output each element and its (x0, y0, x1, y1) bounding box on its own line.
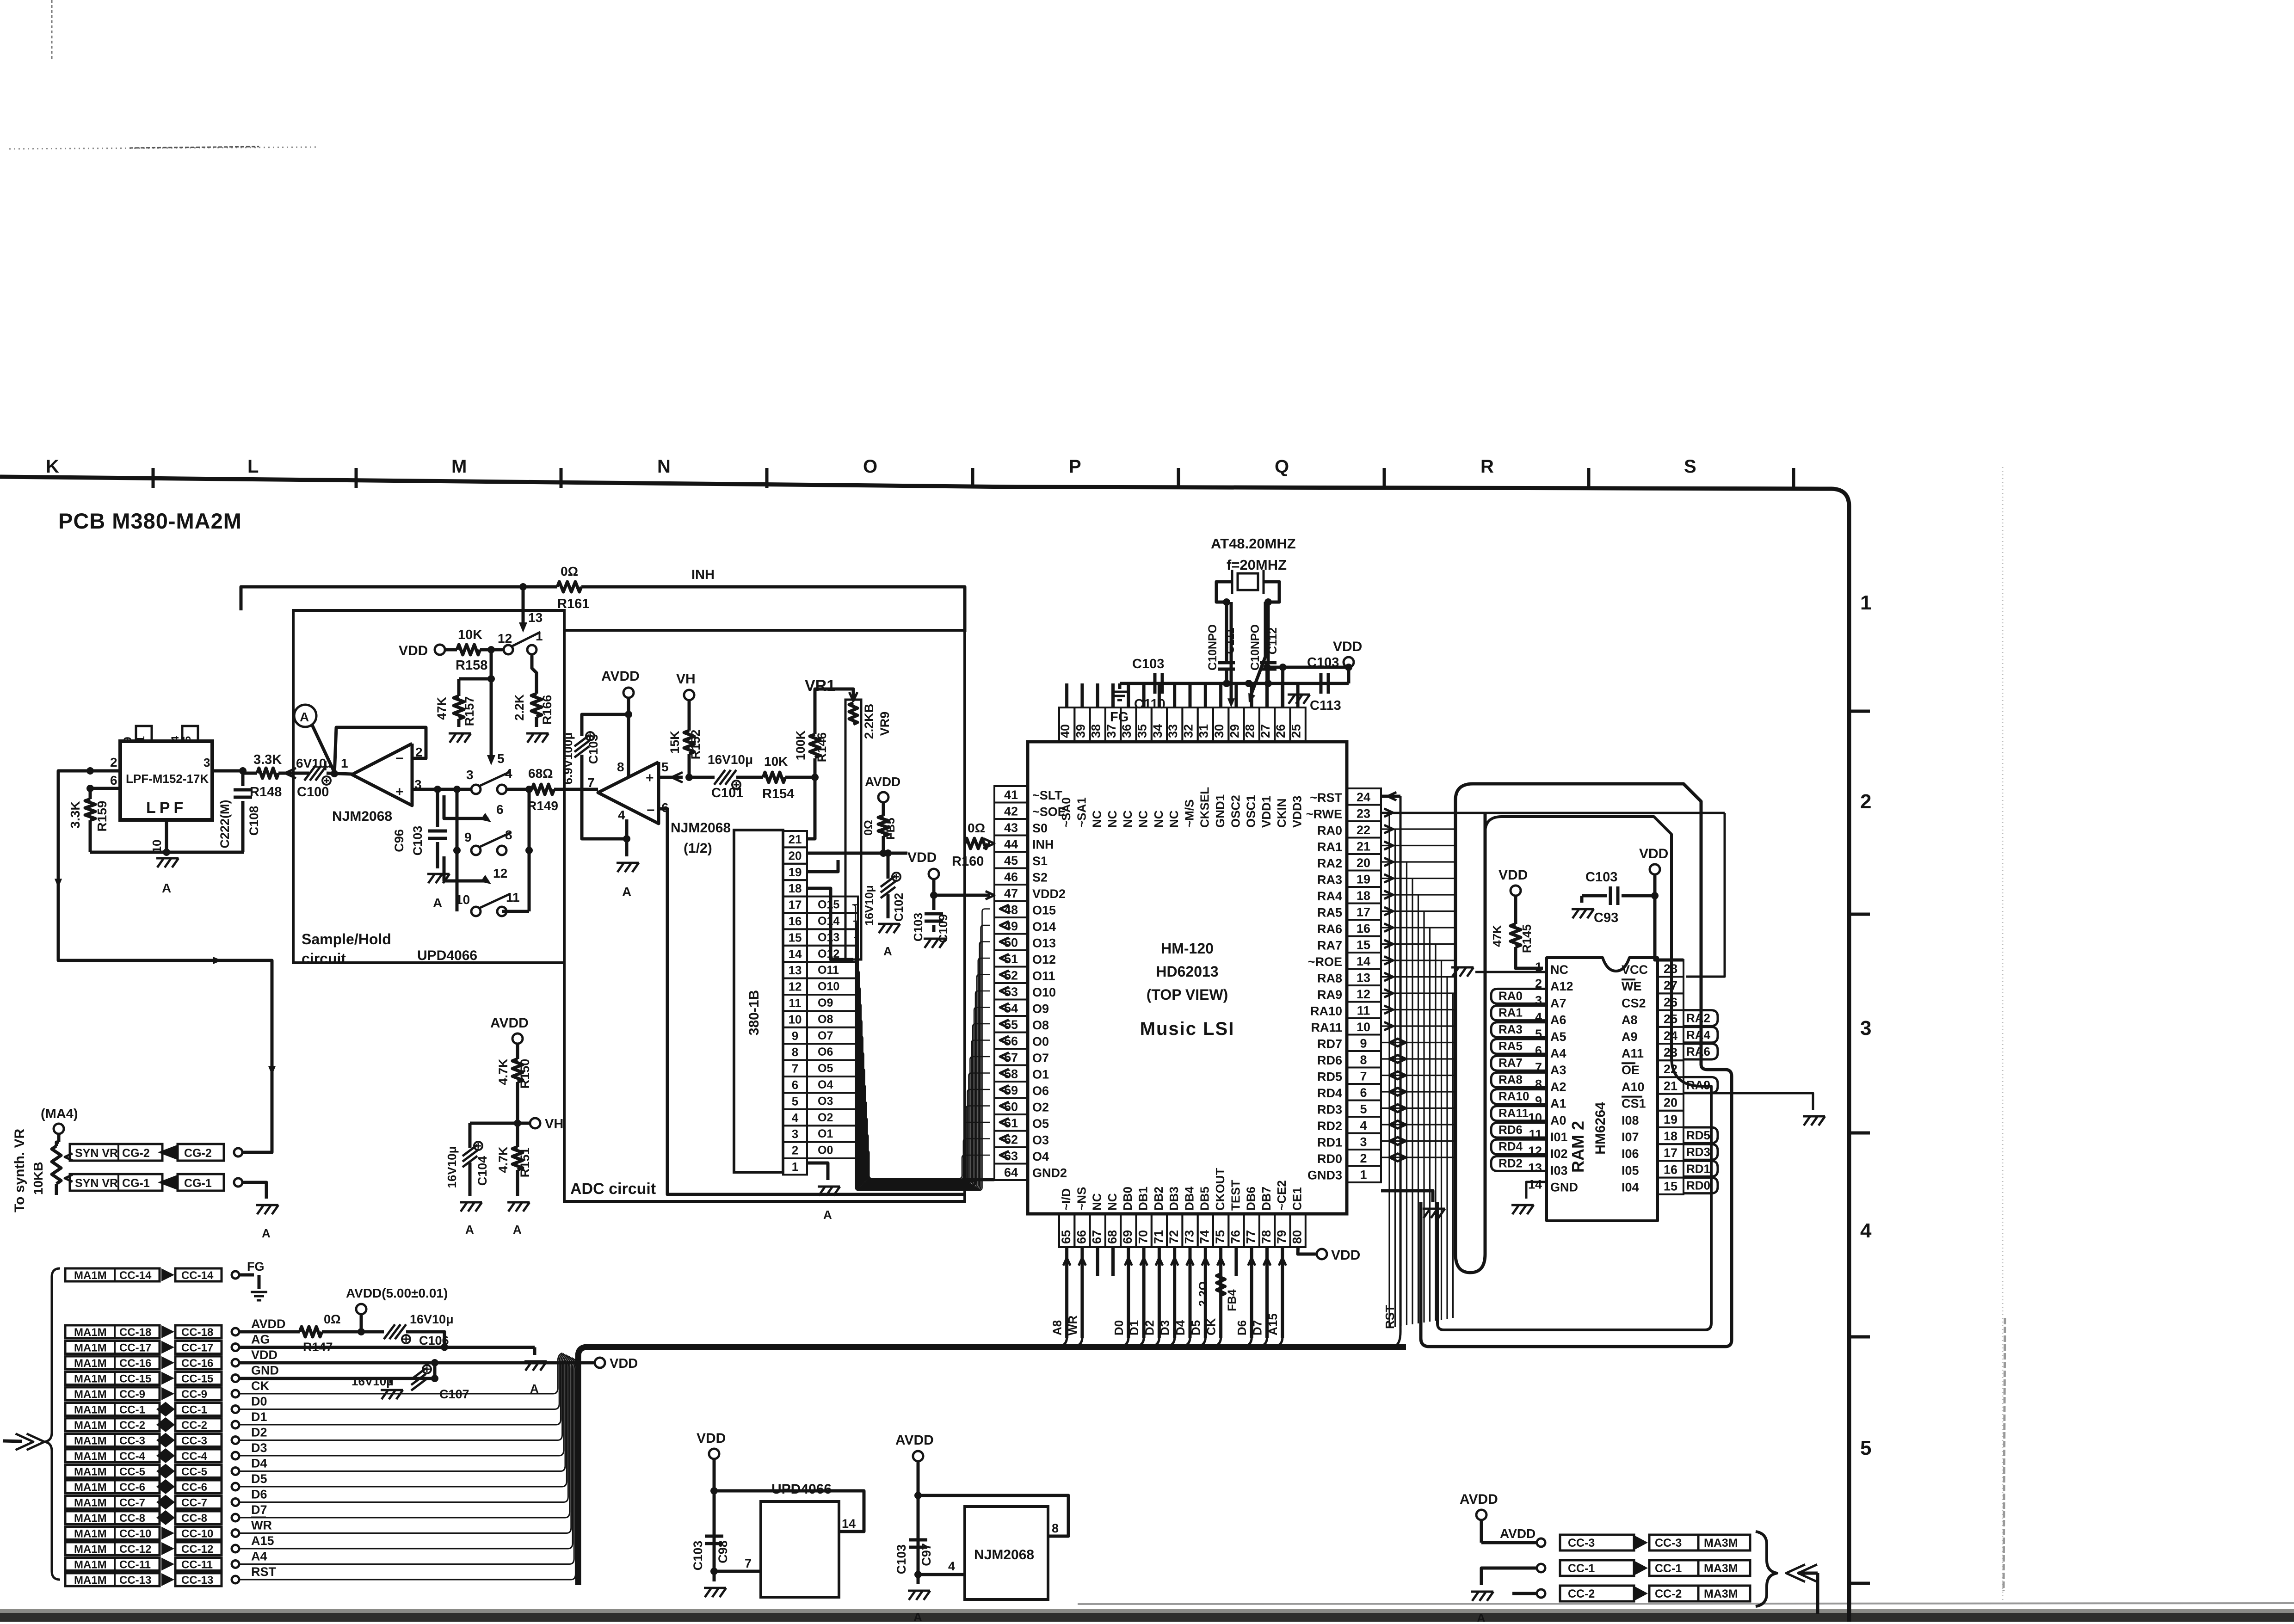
svg-text:68: 68 (1105, 1230, 1119, 1244)
svg-text:A12: A12 (1550, 979, 1573, 993)
RAM pin14 GND wire (1511, 1182, 1547, 1214)
svg-text:CS2: CS2 (1622, 996, 1646, 1010)
brace MA1M group (44, 1268, 60, 1580)
svg-text:R158: R158 (456, 658, 487, 673)
wire vertical bus RA-RD (1389, 813, 1453, 1328)
RAM CS1 wire to ground (1683, 1093, 1825, 1126)
RAM outer loop bottom left (1421, 1202, 1568, 1347)
svg-text:O15: O15 (1032, 904, 1056, 917)
LPF pin 2 wire (86, 755, 120, 775)
svg-text:D1: D1 (251, 1410, 267, 1424)
svg-text:R154: R154 (762, 787, 794, 801)
svg-text:24: 24 (1357, 790, 1370, 804)
svg-text:RD3: RD3 (1317, 1103, 1342, 1117)
svg-text:D2: D2 (1142, 1320, 1156, 1335)
svg-text:+: + (646, 770, 654, 786)
svg-text:1: 1 (536, 629, 543, 643)
label NJM2068 (1/2) (671, 820, 731, 856)
svg-text:40: 40 (1058, 724, 1072, 738)
svg-text:70: 70 (1136, 1230, 1150, 1244)
terminal VDD near pin47 (907, 850, 939, 879)
svg-text:AG: AG (251, 1333, 270, 1347)
ground A below LPF (156, 858, 179, 895)
svg-text:D3: D3 (1158, 1320, 1172, 1335)
svg-text:C110: C110 (1134, 697, 1165, 712)
svg-text:DB0: DB0 (1121, 1187, 1135, 1211)
svg-text:R150: R150 (518, 1059, 532, 1089)
svg-text:AVDD: AVDD (865, 775, 900, 789)
svg-text:NC: NC (1121, 810, 1135, 828)
svg-text:9: 9 (1360, 1037, 1367, 1051)
svg-text:CC-11: CC-11 (119, 1559, 151, 1571)
svg-text:21: 21 (1664, 1079, 1677, 1093)
svg-text:RA10: RA10 (1498, 1089, 1529, 1103)
svg-text:MA1M: MA1M (74, 1373, 107, 1385)
svg-text:O8: O8 (1032, 1018, 1049, 1032)
resistor R161 0ohm (241, 564, 589, 611)
capacitor C102 16V10u (863, 853, 906, 926)
svg-text:O2: O2 (818, 1111, 833, 1124)
svg-text:O0: O0 (818, 1144, 833, 1157)
svg-text:MA3M: MA3M (1704, 1587, 1738, 1600)
svg-text:I03: I03 (1550, 1163, 1568, 1177)
svg-text:I08: I08 (1622, 1113, 1639, 1127)
svg-text:NC: NC (1136, 810, 1150, 828)
svg-text:4: 4 (169, 736, 181, 742)
svg-text:A: A (913, 1610, 922, 1622)
svg-text:VDD: VDD (907, 850, 937, 865)
terminal AVDD ADC (601, 669, 640, 698)
svg-text:O14: O14 (1032, 920, 1056, 934)
svg-text:+: + (395, 784, 404, 800)
svg-text:O12: O12 (818, 947, 839, 960)
svg-text:23: 23 (1664, 1046, 1677, 1059)
svg-text:A: A (465, 1223, 474, 1236)
wire op-amp pin6 feedback (659, 809, 965, 1194)
svg-text:R151: R151 (518, 1148, 532, 1178)
title PCB M380-MA2M (58, 509, 242, 533)
svg-text:PCB M380-MA2M: PCB M380-MA2M (58, 509, 242, 533)
svg-text:D0: D0 (251, 1395, 267, 1409)
svg-text:A6: A6 (1550, 1013, 1566, 1027)
wire CC-2 stub (1512, 1592, 1536, 1595)
svg-text:31: 31 (1197, 724, 1211, 738)
svg-text:A10: A10 (1622, 1080, 1645, 1094)
svg-text:C97: C97 (919, 1543, 933, 1566)
svg-text:27: 27 (1664, 978, 1677, 992)
connector SYN VR CG-2 (70, 1144, 177, 1161)
Sample/Hold circuit box (293, 610, 564, 963)
svg-text:4: 4 (792, 1111, 799, 1125)
pin 1 GND3 wire (1381, 1191, 1433, 1202)
svg-text:CC-16: CC-16 (181, 1357, 213, 1370)
svg-text:A1: A1 (1550, 1097, 1566, 1111)
svg-text:0Ω: 0Ω (862, 820, 875, 836)
op-amp U NJM2068 first half (352, 744, 423, 806)
svg-text:R: R (1480, 456, 1494, 477)
svg-text:10: 10 (1357, 1020, 1370, 1034)
label ADC circuit (570, 1180, 656, 1198)
svg-text:O: O (863, 456, 877, 477)
wire AVDD to pin8 loop (914, 1461, 1068, 1575)
svg-text:MA1M: MA1M (74, 1269, 107, 1282)
svg-text:CC-1: CC-1 (181, 1404, 207, 1416)
ground mid rail (1288, 695, 1310, 704)
svg-text:12: 12 (493, 866, 507, 880)
LPF pin 6 wire (86, 773, 120, 792)
svg-text:C100: C100 (297, 785, 329, 800)
svg-text:K: K (46, 456, 59, 477)
svg-text:~SLT: ~SLT (1032, 788, 1062, 802)
svg-text:S1: S1 (1032, 854, 1048, 868)
wire cell18 to VR9 bottom (807, 888, 853, 960)
connector 380-1B body (734, 830, 783, 1172)
svg-text:A4: A4 (1550, 1046, 1566, 1060)
svg-text:RA4: RA4 (1686, 1028, 1711, 1042)
svg-text:O1: O1 (818, 1127, 833, 1140)
svg-text:RA8: RA8 (1317, 972, 1342, 985)
resistor R158 10K (445, 627, 504, 673)
svg-text:1: 1 (341, 756, 348, 770)
LPF module LPF-M152-17K (120, 741, 212, 820)
op-amp output junction (412, 786, 476, 793)
svg-text:CC-14: CC-14 (119, 1269, 152, 1282)
resistor R157 47K (435, 679, 491, 727)
wire AVDD down (625, 698, 632, 769)
svg-text:DB6: DB6 (1244, 1187, 1258, 1211)
svg-text:INH: INH (691, 567, 715, 582)
LPF pin 3 label (203, 756, 210, 769)
svg-text:10: 10 (789, 1012, 802, 1026)
svg-text:12: 12 (498, 631, 512, 646)
terminal VDD lower (697, 1431, 726, 1459)
svg-text:MA3M: MA3M (1704, 1562, 1738, 1575)
svg-text:C103: C103 (691, 1541, 705, 1571)
svg-text:O1: O1 (1032, 1068, 1049, 1082)
svg-text:18: 18 (1357, 889, 1370, 903)
label To synth. VR (12, 1129, 27, 1212)
ground below C98 (704, 1571, 726, 1597)
svg-text:6: 6 (110, 773, 117, 787)
svg-text:C93: C93 (1594, 910, 1618, 925)
svg-text:26: 26 (1274, 724, 1288, 738)
svg-text:R160: R160 (952, 854, 984, 869)
svg-text:VR9: VR9 (878, 712, 892, 736)
svg-text:~CE2: ~CE2 (1275, 1180, 1289, 1211)
svg-text:13: 13 (528, 610, 543, 625)
pin 80 VDD wire (1298, 1247, 1360, 1263)
resistor FB4 2.2ohm on CK line (1197, 1274, 1239, 1311)
resistor R147 0ohm (239, 1312, 384, 1354)
svg-text:RD7: RD7 (1317, 1037, 1342, 1051)
ground below C93 (1572, 909, 1594, 918)
ground at GND3 (1423, 1209, 1445, 1218)
svg-text:13: 13 (789, 963, 802, 977)
svg-text:43: 43 (1004, 821, 1018, 835)
svg-text:AVDD: AVDD (1460, 1492, 1498, 1507)
grid row label 1 (1860, 591, 1871, 614)
resistor R152 15K (668, 700, 703, 777)
pin 64 GND2 wire (964, 1175, 994, 1180)
svg-text:0Ω: 0Ω (968, 821, 985, 835)
svg-text:MA1M: MA1M (74, 1466, 107, 1478)
svg-text:S: S (1684, 456, 1696, 477)
svg-text:1: 1 (1860, 591, 1871, 614)
svg-text:D5: D5 (251, 1472, 267, 1486)
svg-text:66: 66 (1074, 1230, 1088, 1244)
svg-text:~RWE: ~RWE (1306, 807, 1342, 821)
capacitor C112 C10NPO (1249, 624, 1279, 683)
svg-text:3: 3 (792, 1127, 798, 1141)
resistor R154 10K (762, 754, 819, 801)
junction dot op-amp input (327, 756, 352, 777)
svg-text:20: 20 (1664, 1096, 1677, 1110)
svg-text:RA0: RA0 (1317, 824, 1342, 837)
svg-text:RA5: RA5 (1498, 1039, 1523, 1053)
svg-text:O4: O4 (1032, 1150, 1049, 1163)
svg-text:I02: I02 (1550, 1147, 1568, 1161)
svg-text:5: 5 (792, 1094, 798, 1108)
svg-text:17: 17 (789, 898, 802, 912)
svg-text:76: 76 (1228, 1230, 1242, 1244)
grid column label K (46, 456, 59, 477)
crystal left leg (1216, 582, 1230, 658)
svg-text:R149: R149 (527, 799, 558, 813)
capacitor C104 16V10u (445, 1123, 518, 1196)
svg-text:CC-17: CC-17 (181, 1342, 213, 1354)
frame: top border line with column ticks (0, 468, 1870, 1622)
svg-text:CC-1: CC-1 (119, 1404, 145, 1416)
svg-text:5: 5 (497, 751, 505, 766)
svg-text:46: 46 (1004, 870, 1018, 884)
svg-text:15K: 15K (668, 731, 682, 754)
svg-text:D1: D1 (1127, 1320, 1141, 1335)
ground A below C97 (908, 1575, 930, 1624)
IC UPD4066 lower body (761, 1482, 839, 1597)
svg-text:A: A (883, 944, 892, 958)
svg-text:RD2: RD2 (1498, 1156, 1523, 1170)
ground A below C102 (878, 924, 900, 958)
svg-text:9: 9 (122, 737, 134, 743)
svg-text:NC: NC (1550, 963, 1568, 977)
svg-text:37: 37 (1104, 724, 1118, 738)
svg-text:4: 4 (505, 766, 512, 781)
svg-text:O5: O5 (818, 1062, 833, 1075)
wire R146 node to pin21 (807, 777, 815, 839)
svg-text:CC-7: CC-7 (119, 1497, 145, 1509)
svg-text:MA1M: MA1M (74, 1388, 107, 1401)
svg-text:13: 13 (1357, 971, 1370, 985)
terminal AVDD divider (490, 1015, 529, 1044)
svg-text:O15: O15 (818, 898, 839, 911)
svg-text:Sample/Hold: Sample/Hold (302, 931, 391, 947)
svg-text:CC-15: CC-15 (181, 1373, 213, 1385)
label Sample/Hold circuit (302, 931, 391, 967)
svg-text:CC-11: CC-11 (181, 1559, 213, 1571)
wire AVDD br (1481, 1526, 1536, 1543)
resistor R160 0ohm (952, 821, 994, 869)
svg-text:O7: O7 (818, 1029, 833, 1042)
svg-text:(MA4): (MA4) (41, 1107, 78, 1121)
svg-text:72: 72 (1167, 1230, 1181, 1244)
terminal (MA4) (41, 1107, 78, 1142)
control tap 12 (444, 856, 507, 884)
svg-text:26: 26 (1664, 995, 1677, 1009)
svg-text:RD1: RD1 (1317, 1136, 1342, 1150)
wire switch column right (525, 789, 533, 911)
svg-text:GND1: GND1 (1213, 794, 1227, 828)
wire top rail (1120, 680, 1332, 687)
capacitor C103/C97 lower (894, 1540, 933, 1574)
wire with left arrow (278, 768, 309, 778)
svg-text:3: 3 (1360, 1135, 1367, 1149)
svg-text:FB5: FB5 (884, 818, 897, 839)
terminal VH divider (514, 1117, 563, 1132)
svg-text:R148: R148 (250, 785, 282, 800)
svg-text:5: 5 (1360, 1102, 1367, 1116)
svg-text:0Ω: 0Ω (324, 1312, 341, 1326)
svg-text:35: 35 (1135, 724, 1149, 738)
label crystal AT48.20MHZ (1211, 535, 1296, 552)
svg-text:C103: C103 (911, 913, 925, 941)
svg-text:RA1: RA1 (1317, 840, 1342, 854)
svg-text:D7: D7 (1251, 1320, 1264, 1335)
ground below C109 (924, 939, 946, 948)
svg-text:MA1M: MA1M (74, 1342, 107, 1354)
grid column label S (1684, 456, 1696, 477)
cable slot inner (1455, 814, 1485, 1273)
svg-text:VDD: VDD (1639, 846, 1668, 861)
svg-text:47K: 47K (435, 697, 449, 720)
svg-text:CC-1: CC-1 (1655, 1562, 1682, 1575)
svg-text:47: 47 (1004, 886, 1018, 900)
resistor R166 2.2K (512, 655, 554, 727)
svg-text:47K: 47K (1490, 925, 1504, 947)
svg-text:MA1M: MA1M (74, 1574, 107, 1587)
svg-text:18: 18 (1664, 1129, 1677, 1143)
svg-text:10K: 10K (764, 754, 788, 769)
svg-text:DB2: DB2 (1152, 1187, 1165, 1211)
svg-text:MA1M: MA1M (74, 1481, 107, 1494)
svg-text:RD1: RD1 (1686, 1162, 1710, 1175)
svg-text:D4: D4 (251, 1457, 267, 1470)
svg-text:CC-1: CC-1 (1568, 1562, 1595, 1575)
RAM pin2 A12 ground wire (1451, 967, 1547, 977)
op-amp feedback loop wire (334, 727, 426, 775)
svg-text:19: 19 (789, 865, 802, 879)
wire pin4 lower (914, 1559, 965, 1578)
svg-text:MA1M: MA1M (74, 1543, 107, 1556)
resistor R146 100K (794, 699, 829, 777)
svg-text:MA1M: MA1M (74, 1419, 107, 1432)
svg-text:1: 1 (792, 1160, 798, 1174)
svg-text:C102: C102 (892, 893, 906, 922)
ground FG (1110, 683, 1128, 725)
svg-text:D2: D2 (251, 1426, 267, 1439)
terminal VH (676, 671, 696, 700)
IC U right pin boxes 24-1 (1306, 788, 1381, 1182)
resistor R149 68ohm (527, 766, 598, 813)
svg-text:WR: WR (1066, 1315, 1079, 1335)
connector MA1M table rows (65, 1325, 239, 1587)
svg-text:C98: C98 (716, 1540, 730, 1563)
switch S 12-1 (498, 629, 543, 654)
wire VR top (815, 689, 853, 711)
svg-text:RA9: RA9 (1686, 1078, 1710, 1092)
capacitor C111 C10NPO (1206, 624, 1237, 683)
LPF pin 10 stub (150, 820, 170, 856)
svg-text:O12: O12 (1032, 953, 1056, 966)
ground A CG-1 (256, 1205, 278, 1240)
svg-text:14: 14 (1357, 954, 1370, 968)
svg-text:LPF-M152-17K: LPF-M152-17K (126, 772, 209, 786)
svg-text:R145: R145 (1520, 924, 1534, 953)
svg-text:VDD: VDD (1498, 867, 1528, 883)
svg-text:C96: C96 (392, 829, 406, 852)
svg-text:10: 10 (456, 892, 470, 907)
svg-text:39: 39 (1073, 724, 1087, 738)
wire CC-1 gnd (1481, 1568, 1536, 1585)
svg-text:RA3: RA3 (1498, 1022, 1523, 1036)
svg-text:C103: C103 (1585, 870, 1617, 885)
switch S 3-4 (466, 766, 533, 794)
svg-text:19: 19 (1357, 873, 1370, 886)
svg-text:A: A (622, 885, 631, 899)
svg-text:MA1M: MA1M (74, 1357, 107, 1370)
svg-text:CC-10: CC-10 (181, 1528, 213, 1540)
svg-text:77: 77 (1244, 1230, 1258, 1244)
IC RAM 2 HM6264 body (1547, 958, 1658, 1221)
left pin arrowheads (1000, 905, 1009, 1159)
svg-text:O11: O11 (818, 964, 839, 977)
svg-text:O9: O9 (818, 997, 833, 1009)
svg-text:22: 22 (1357, 823, 1370, 837)
svg-text:VCC: VCC (1622, 963, 1648, 977)
terminal VDD C93 (1639, 846, 1668, 874)
svg-text:RD4: RD4 (1498, 1139, 1523, 1153)
svg-text:CC-4: CC-4 (119, 1450, 146, 1463)
ground A below C96 (427, 874, 450, 910)
svg-text:VDD2: VDD2 (1032, 887, 1066, 901)
connector 380-1B pin1 ground (807, 1163, 840, 1222)
svg-text:CC-18: CC-18 (181, 1326, 213, 1339)
svg-text:C101: C101 (711, 786, 743, 800)
IC U top pin boxes 40-25 (1058, 707, 1306, 828)
svg-text:C103: C103 (1132, 657, 1164, 671)
ground A on AG (524, 1361, 547, 1396)
svg-text:CC-6: CC-6 (119, 1481, 145, 1494)
svg-text:S2: S2 (1032, 871, 1048, 885)
svg-text:R166: R166 (540, 695, 554, 725)
svg-text:6.9V100μ: 6.9V100μ (561, 732, 575, 785)
svg-text:7: 7 (587, 775, 595, 790)
svg-text:R157: R157 (462, 696, 476, 726)
svg-text:RA6: RA6 (1317, 922, 1342, 936)
svg-text:f=20MHZ: f=20MHZ (1227, 557, 1287, 573)
op-amp supply pin wire (627, 769, 630, 777)
svg-text:2: 2 (1860, 790, 1871, 813)
svg-text:C10NPO: C10NPO (1249, 624, 1262, 671)
svg-text:~I/D: ~I/D (1059, 1188, 1073, 1211)
svg-text:3.3K: 3.3K (68, 801, 82, 828)
svg-text:VDD: VDD (1333, 639, 1362, 654)
svg-text:O3: O3 (1032, 1133, 1049, 1147)
connector CC-1 row (1537, 1560, 1750, 1576)
svg-text:FG: FG (1110, 710, 1128, 725)
grid column label M (451, 456, 467, 477)
svg-text:VDD1: VDD1 (1259, 796, 1273, 828)
svg-text:N: N (657, 456, 671, 477)
